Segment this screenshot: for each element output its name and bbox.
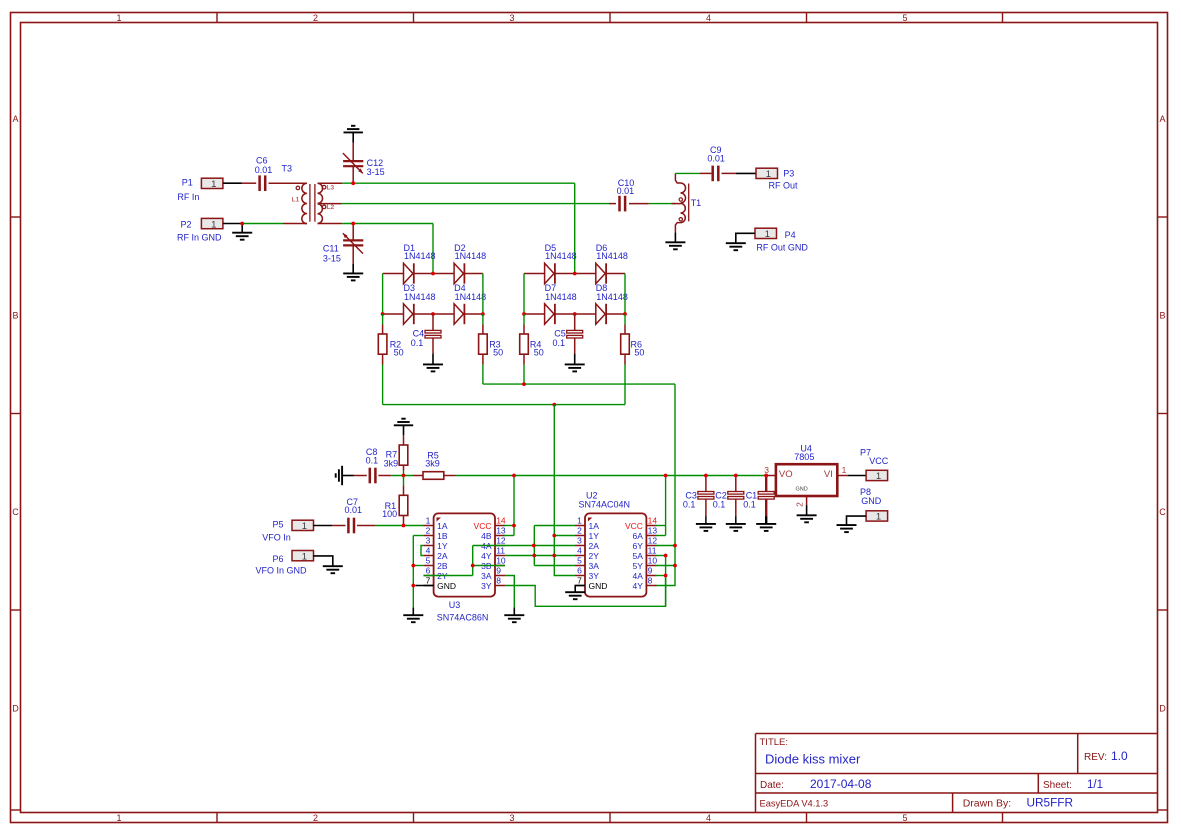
svg-text:6: 6 <box>426 566 431 576</box>
wire C2 bottom (black) <box>735 516 737 524</box>
bus2 wire (green) <box>383 404 625 406</box>
C10 labels <box>617 178 635 196</box>
wire R2 to bus2 (green) <box>382 365 384 405</box>
svg-text:1: 1 <box>876 471 881 482</box>
C3 labels <box>683 491 697 510</box>
junction bus2 tap <box>552 403 556 407</box>
svg-text:P1: P1 <box>182 177 193 187</box>
junction P2/ground <box>240 222 244 226</box>
svg-text:4Y: 4Y <box>481 551 492 561</box>
svg-text:13: 13 <box>648 526 658 536</box>
resistor R4 <box>520 314 529 365</box>
svg-text:10: 10 <box>648 556 658 566</box>
wire R7 top <box>403 425 405 445</box>
bus2 drop to U2 left (green) <box>554 405 575 576</box>
wire T1 tap lead <box>672 203 681 205</box>
svg-text:C6: C6 <box>256 155 268 165</box>
svg-text:2: 2 <box>426 526 431 536</box>
svg-text:1: 1 <box>116 813 121 823</box>
svg-text:GND: GND <box>861 496 882 506</box>
svg-text:10: 10 <box>496 556 506 566</box>
ground at P4 <box>726 243 746 250</box>
ring wires bottom row (maroon) <box>383 313 625 315</box>
U4 pin3 stub <box>764 475 776 477</box>
svg-text:1: 1 <box>766 169 771 180</box>
wire C6 leads <box>242 182 307 184</box>
capacitor C7 leads <box>332 525 375 527</box>
wire P4 pin (black) <box>736 233 755 243</box>
P2 ground stem <box>241 224 243 233</box>
svg-text:C: C <box>12 507 19 517</box>
svg-text:3: 3 <box>577 536 582 546</box>
svg-text:Date:: Date: <box>760 780 784 791</box>
svg-text:3: 3 <box>509 13 514 23</box>
ground at C3 <box>696 524 716 531</box>
ground at C5 <box>565 364 585 371</box>
svg-text:1A: 1A <box>437 521 448 531</box>
C6 labels <box>255 155 273 175</box>
svg-text:0.01: 0.01 <box>617 186 635 196</box>
connector P3 <box>756 168 778 180</box>
svg-text:C: C <box>1159 507 1166 517</box>
junction V1 dots <box>532 534 556 558</box>
transformer T1 core <box>688 184 690 222</box>
svg-text:RF Out: RF Out <box>769 180 799 190</box>
ground U2 <box>565 592 585 599</box>
bus1 drop to U2 right (green) <box>655 384 675 585</box>
svg-text:1/1: 1/1 <box>1087 779 1103 791</box>
P8 labels <box>860 487 882 506</box>
VCC drop to U3 pin14/13 (green) <box>504 476 514 536</box>
wire C3 bottom (black) <box>705 516 707 524</box>
wire C1 bottom (black) <box>765 516 767 524</box>
transformer T3 primary winding L1 <box>292 183 307 223</box>
svg-text:3-15: 3-15 <box>367 167 385 177</box>
svg-text:11: 11 <box>648 546 657 556</box>
U2 labels <box>579 491 631 510</box>
frame row letters right <box>1159 114 1166 714</box>
wire C8 left (black) <box>342 475 354 477</box>
wire C10 to T1 (green) <box>649 203 676 205</box>
R1 labels <box>382 501 397 519</box>
junction C11/T3 <box>351 222 355 226</box>
frame column numbers top <box>116 13 907 23</box>
svg-text:50: 50 <box>394 347 404 357</box>
svg-text:3k9: 3k9 <box>425 459 440 469</box>
U3 pin9 3A wire (green) <box>505 576 514 608</box>
junction bus1/R4 <box>522 382 526 386</box>
svg-text:VFO In GND: VFO In GND <box>256 565 308 575</box>
svg-text:2: 2 <box>313 13 318 23</box>
U2 gnd step (black) <box>575 586 585 593</box>
svg-text:B: B <box>12 311 18 321</box>
wire P5 pin (black) <box>313 525 332 527</box>
resistor R6 <box>621 314 630 365</box>
resistor R7 <box>399 445 408 476</box>
transformer T1 winding (lower) <box>675 203 685 232</box>
svg-text:VCC: VCC <box>869 456 889 466</box>
svg-text:VCC: VCC <box>474 521 492 531</box>
junction U3 pin14 <box>512 524 516 528</box>
junction U3 pin7 <box>411 584 415 588</box>
C8 labels <box>366 447 379 466</box>
svg-text:VI: VI <box>824 469 833 480</box>
wire T3 bottom to ring (green) <box>342 223 433 225</box>
svg-text:5Y: 5Y <box>632 561 643 571</box>
C11 labels <box>323 244 341 264</box>
svg-text:1: 1 <box>765 229 770 240</box>
wire down to D1/D2 (green) <box>432 224 434 274</box>
svg-text:1: 1 <box>577 516 582 526</box>
svg-text:VO: VO <box>779 469 793 480</box>
svg-text:50: 50 <box>534 347 544 357</box>
resistor R3 <box>479 314 488 365</box>
R6 labels <box>631 340 645 358</box>
svg-text:2A: 2A <box>589 541 600 551</box>
svg-text:4: 4 <box>706 813 711 823</box>
svg-text:TITLE:: TITLE: <box>760 737 789 748</box>
connector P5 <box>292 520 314 532</box>
capacitor C7 <box>347 518 355 534</box>
wire C9 to P3 (black) <box>736 172 756 174</box>
svg-text:C4: C4 <box>413 329 425 339</box>
svg-text:P3: P3 <box>783 169 794 179</box>
junction U2 pin9 <box>664 574 668 578</box>
wire P2 pin (black) <box>223 223 242 225</box>
R3 labels <box>489 340 503 358</box>
capacitor C10 leads <box>609 203 649 205</box>
connector P4 <box>755 228 777 240</box>
svg-text:4Y: 4Y <box>632 581 643 591</box>
svg-text:1: 1 <box>876 512 881 523</box>
U2 pin2 wire (green) <box>554 535 575 537</box>
svg-text:0.01: 0.01 <box>707 153 725 163</box>
svg-text:0.01: 0.01 <box>255 165 273 175</box>
D5 labels <box>545 243 577 261</box>
U3 pins 3-4 loop (green) <box>421 546 424 556</box>
voltage regulator U4 7805 <box>776 464 837 496</box>
C12 labels <box>367 158 385 177</box>
svg-text:4B: 4B <box>481 531 492 541</box>
svg-text:1.0: 1.0 <box>1111 749 1128 763</box>
svg-text:1N4148: 1N4148 <box>545 251 577 261</box>
svg-text:50: 50 <box>634 347 644 357</box>
wire down to D5/D6 (green) <box>574 183 576 273</box>
svg-text:5: 5 <box>577 556 582 566</box>
svg-text:L3: L3 <box>327 184 335 191</box>
svg-text:7: 7 <box>577 576 582 586</box>
svg-text:B: B <box>1159 311 1165 321</box>
svg-text:GND: GND <box>437 581 456 591</box>
svg-text:0.01: 0.01 <box>345 505 363 515</box>
ground at C2 <box>726 524 746 531</box>
title block texts <box>760 737 1129 810</box>
junction U3 pin5 <box>411 564 415 568</box>
ground U3 right <box>504 615 524 622</box>
svg-text:0.1: 0.1 <box>743 500 756 510</box>
wire P6 pin (black) <box>313 556 333 566</box>
capacitor C8 <box>369 468 377 484</box>
ring wires top row (maroon) <box>383 273 625 275</box>
svg-text:50: 50 <box>493 347 503 357</box>
svg-text:2Y: 2Y <box>589 551 600 561</box>
junction VCC/C3 <box>704 474 708 478</box>
D2 labels <box>454 243 486 261</box>
capacitor C10 <box>618 196 626 212</box>
capacitor C2 <box>728 476 744 517</box>
ground at P2 <box>232 233 252 240</box>
U2 pins right <box>625 516 657 591</box>
wire P8 pin (black) <box>847 516 867 525</box>
svg-text:9: 9 <box>648 566 653 576</box>
svg-text:1: 1 <box>211 219 216 230</box>
wire C7 to U3 (green) <box>376 525 424 527</box>
transformer T3 core <box>310 184 315 222</box>
U3 left ground stem <box>412 608 414 616</box>
svg-text:4: 4 <box>706 13 711 23</box>
connector P1 <box>201 178 223 190</box>
svg-text:1N4148: 1N4148 <box>596 292 628 302</box>
svg-text:3-15: 3-15 <box>323 254 341 264</box>
resistor R5 <box>413 472 456 480</box>
U2 pin12/pin10 wires to bus1 (green) <box>655 546 675 566</box>
svg-text:RF Out GND: RF Out GND <box>756 242 808 252</box>
capacitor C8 leads <box>354 475 391 477</box>
diode D3 <box>404 304 414 324</box>
capacitor C1 <box>758 476 774 517</box>
ground at U4 <box>797 515 817 522</box>
U2 pins left <box>575 516 607 591</box>
junction U4 pin3 / C1 <box>764 474 768 478</box>
svg-text:1N4148: 1N4148 <box>404 251 436 261</box>
P3 labels <box>769 169 799 191</box>
U3 2Y-3B-4A over-body wire (green) <box>423 546 533 576</box>
wire U4 pin2 (black) <box>806 505 808 515</box>
diode D6 <box>596 263 606 283</box>
D6 labels <box>596 243 628 261</box>
svg-text:9: 9 <box>496 566 501 576</box>
svg-text:1N4148: 1N4148 <box>455 251 487 261</box>
resistor R1 <box>399 476 408 526</box>
junction bus1/U2 dots <box>673 544 677 568</box>
svg-text:RF In GND: RF In GND <box>177 232 222 242</box>
wire T3 mid to C10 (green) <box>342 203 609 205</box>
wire C12 top (black) <box>352 132 354 142</box>
wire P1 pin (black) <box>223 182 242 184</box>
svg-text:3: 3 <box>509 813 514 823</box>
svg-text:14: 14 <box>648 516 658 526</box>
svg-text:VFO In: VFO In <box>262 532 291 542</box>
svg-text:Diode kiss mixer: Diode kiss mixer <box>765 752 861 767</box>
svg-text:1: 1 <box>426 516 431 526</box>
svg-text:1Y: 1Y <box>437 541 448 551</box>
P1 labels <box>177 177 199 202</box>
U4 labels <box>794 444 814 462</box>
svg-text:Sheet:: Sheet: <box>1043 780 1072 791</box>
svg-text:3: 3 <box>426 536 431 546</box>
capacitor C9 <box>711 166 719 182</box>
svg-text:C11: C11 <box>323 244 339 254</box>
svg-text:7805: 7805 <box>794 452 814 462</box>
U3 pin8 3Y wire (green) <box>505 576 666 607</box>
svg-text:2: 2 <box>577 526 582 536</box>
svg-text:11: 11 <box>496 546 505 556</box>
svg-text:0.1: 0.1 <box>683 500 696 510</box>
svg-text:1: 1 <box>302 551 307 562</box>
wire C11 bottom (black) <box>352 264 354 274</box>
svg-text:3k9: 3k9 <box>384 459 399 469</box>
svg-text:5A: 5A <box>632 551 643 561</box>
ring side wires (green) <box>383 274 625 315</box>
capacitor C11 (variable) <box>343 224 363 264</box>
svg-text:6Y: 6Y <box>632 541 643 551</box>
capacitor C6 <box>258 175 266 191</box>
svg-text:3: 3 <box>764 465 769 475</box>
wire C8 to junction (green) <box>391 475 413 477</box>
ground at P6 <box>323 566 343 573</box>
diode D5 <box>545 263 555 283</box>
ground at C4 <box>423 364 443 371</box>
connector P6 <box>292 551 314 563</box>
svg-text:RF In: RF In <box>177 192 199 202</box>
frame column numbers bottom <box>116 813 907 823</box>
T3 lead wires <box>283 183 342 223</box>
transformer T1 winding (upper) <box>675 173 685 203</box>
R2 labels <box>390 340 404 358</box>
svg-text:2: 2 <box>313 813 318 823</box>
frame row letters left <box>12 114 19 714</box>
svg-text:1N4148: 1N4148 <box>404 292 436 302</box>
ground at C1 <box>756 524 776 531</box>
P4 labels <box>756 230 808 252</box>
capacitor C4 <box>425 314 441 354</box>
junction VCC row / drop <box>512 474 516 478</box>
svg-text:1N4148: 1N4148 <box>596 251 628 261</box>
svg-text:6A: 6A <box>632 531 643 541</box>
svg-text:P5: P5 <box>273 519 284 529</box>
junction R1/C7 <box>402 524 406 528</box>
capacitor C12 (variable) <box>343 143 363 184</box>
svg-text:100: 100 <box>382 509 397 519</box>
svg-text:1Y: 1Y <box>589 531 600 541</box>
P2 labels <box>177 220 222 243</box>
svg-text:1N4148: 1N4148 <box>545 292 577 302</box>
svg-text:12: 12 <box>648 536 658 546</box>
ground above R7 (inverted) <box>394 419 413 426</box>
svg-text:0.1: 0.1 <box>411 338 424 348</box>
svg-text:1: 1 <box>116 13 121 23</box>
title block <box>756 734 1158 813</box>
U4 pin1 stub <box>837 475 847 477</box>
U3 pins right <box>474 516 506 591</box>
capacitor C3 <box>698 476 714 517</box>
VCC row wire (green) <box>456 475 767 477</box>
svg-text:5: 5 <box>902 813 907 823</box>
svg-text:3Y: 3Y <box>481 581 492 591</box>
ground left of C8 (pointing left) <box>336 466 342 485</box>
svg-text:13: 13 <box>496 526 506 536</box>
svg-text:D: D <box>1159 704 1166 714</box>
IC body U3 <box>434 513 495 596</box>
C5 labels <box>553 329 566 349</box>
transformer T3 secondary winding L2 <box>318 204 335 224</box>
D8 labels <box>596 283 628 302</box>
svg-text:REV:: REV: <box>1084 752 1107 763</box>
U3 labels <box>437 600 489 623</box>
ground U3 left <box>403 615 423 622</box>
svg-text:1: 1 <box>302 521 307 532</box>
IC body U2 <box>585 513 646 596</box>
svg-text:8: 8 <box>648 576 653 586</box>
junction VCC/C2 <box>734 474 738 478</box>
svg-text:5: 5 <box>426 556 431 566</box>
svg-text:EasyEDA V4.1.3: EasyEDA V4.1.3 <box>760 799 829 809</box>
P5 labels <box>262 519 291 542</box>
svg-text:P6: P6 <box>273 554 284 564</box>
capacitor C5 <box>567 314 583 354</box>
D4 labels <box>454 283 486 302</box>
svg-text:UR5FFR: UR5FFR <box>1027 796 1074 810</box>
wire U4 pin1 to P7 (black) <box>848 475 866 477</box>
svg-text:2017-04-08: 2017-04-08 <box>810 777 872 791</box>
svg-text:T3: T3 <box>282 164 293 174</box>
svg-text:0.1: 0.1 <box>366 455 379 465</box>
transformer T3 secondary winding L3 <box>318 183 335 203</box>
svg-text:4A: 4A <box>632 571 643 581</box>
svg-text:P2: P2 <box>181 220 192 230</box>
svg-text:L2: L2 <box>327 204 335 211</box>
D1 labels <box>404 243 436 261</box>
connector P2 <box>201 218 223 230</box>
ground at T1 <box>665 242 685 249</box>
svg-text:2A: 2A <box>437 551 448 561</box>
svg-text:GND: GND <box>796 486 808 492</box>
svg-text:0.1: 0.1 <box>553 338 566 348</box>
svg-text:6: 6 <box>577 566 582 576</box>
C2 labels <box>713 491 727 510</box>
svg-text:3A: 3A <box>589 561 600 571</box>
U3 pins left <box>424 516 456 591</box>
diode D7 <box>545 304 555 324</box>
svg-text:P4: P4 <box>785 230 796 240</box>
D3 labels <box>404 283 436 302</box>
C4 labels <box>411 329 424 349</box>
svg-text:1N4148: 1N4148 <box>455 292 487 302</box>
wire T1 to C9 (green) <box>675 172 700 174</box>
capacitor C9 leads <box>700 172 736 174</box>
junction R7/R5/R1/C8 <box>402 474 406 478</box>
connector P7 <box>866 470 888 482</box>
junction U2 pin11 <box>664 554 668 558</box>
U4 pin2 stub <box>806 496 808 505</box>
svg-text:SN74AC04N: SN74AC04N <box>579 500 631 510</box>
U3-U2 interconnect V1 (green) <box>505 526 575 566</box>
diode D1 <box>404 263 414 283</box>
diode D2 <box>454 263 464 283</box>
svg-text:4: 4 <box>577 546 582 556</box>
wire T3 top to ring (green) <box>342 182 574 184</box>
svg-text:L1: L1 <box>292 197 300 204</box>
U3 pin7 stub (black) <box>416 585 434 587</box>
svg-text:3A: 3A <box>481 571 492 581</box>
wire C5 bottom (black) <box>574 354 576 365</box>
resistor R2 <box>378 314 387 365</box>
connector P8 <box>866 511 888 523</box>
C7 labels <box>345 497 363 515</box>
U3 3Y to U2 pins 11,9 vertical (green) <box>655 556 665 607</box>
svg-text:Drawn By:: Drawn By: <box>963 798 1011 810</box>
svg-text:A: A <box>1159 114 1165 124</box>
